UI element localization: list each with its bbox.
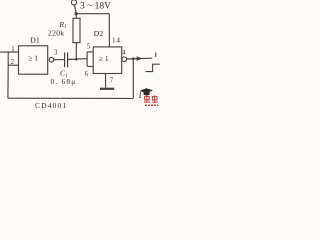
- svg-text:0. 68μ: 0. 68μ: [51, 77, 77, 86]
- svg-text:3 ~ 18V: 3 ~ 18V: [80, 2, 111, 12]
- svg-text:1: 1: [11, 46, 14, 53]
- svg-text:4: 4: [122, 49, 126, 56]
- svg-text:D1: D1: [30, 36, 40, 45]
- svg-text:≥1: ≥1: [28, 54, 39, 63]
- svg-text:2: 2: [11, 59, 15, 66]
- svg-text:7: 7: [110, 78, 114, 85]
- svg-text:3: 3: [54, 49, 58, 56]
- svg-text:CD4001: CD4001: [35, 101, 67, 110]
- svg-text:D2: D2: [94, 29, 104, 38]
- svg-text:220k: 220k: [48, 29, 64, 38]
- svg-text:5: 5: [87, 44, 91, 51]
- svg-text:14: 14: [112, 37, 121, 45]
- svg-text:6: 6: [85, 71, 89, 78]
- svg-text:≥1: ≥1: [99, 54, 110, 63]
